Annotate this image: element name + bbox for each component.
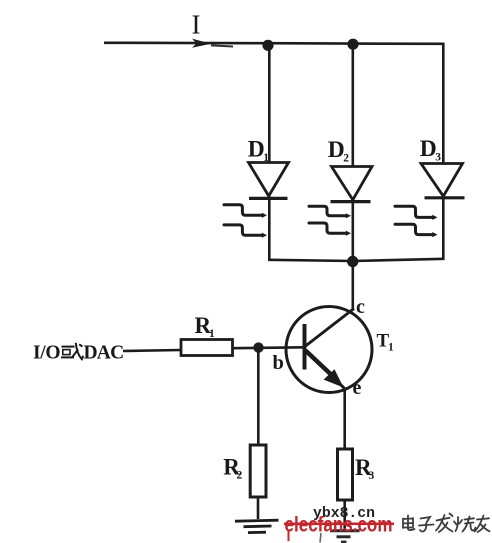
resistor R3 — [338, 449, 353, 500]
diode D2 — [331, 167, 373, 202]
ground under R2 — [235, 520, 279, 532]
light arrow D2 upper — [309, 206, 351, 218]
wire emitter vertical — [343, 388, 346, 450]
svg-text:DAC: DAC — [84, 343, 124, 364]
wire D1 cathode drop — [268, 196, 271, 261]
diode D1 — [249, 163, 289, 199]
watermark Chinese dianzifashaoyou — [403, 514, 490, 533]
wire D3 cathode drop — [442, 196, 445, 260]
light arrow D1 lower — [224, 225, 267, 238]
label T1 — [377, 331, 395, 354]
label R1 — [195, 313, 216, 340]
wire D2 cathode drop — [351, 199, 354, 262]
light arrow D3 upper — [395, 206, 438, 220]
svg-text:2: 2 — [237, 469, 243, 481]
wire R2 to ground — [257, 497, 260, 519]
transistor T1 — [286, 307, 372, 393]
wire D3 branch from rail corner — [442, 43, 445, 164]
glyph Chinese huo (or) — [61, 343, 83, 359]
wire R3 to ground — [343, 500, 346, 529]
svg-text:b: b — [273, 352, 284, 374]
label D1 — [248, 137, 269, 164]
wire D1 anode drop — [268, 43, 271, 163]
label R3 — [355, 455, 375, 482]
ground under R3 — [330, 531, 360, 542]
current arrow on top rail — [192, 39, 211, 48]
watermark stray descender marks — [289, 531, 322, 543]
node junction bottom rail — [347, 256, 358, 267]
node junction top-left — [262, 40, 273, 51]
svg-text:I: I — [192, 10, 201, 40]
svg-text:3: 3 — [435, 151, 441, 163]
light arrow D2 lower — [309, 223, 351, 236]
wire collector vertical — [351, 261, 354, 310]
svg-text:D: D — [248, 137, 265, 163]
svg-text:3: 3 — [369, 470, 375, 482]
label R2 — [223, 455, 242, 482]
wire base lead — [123, 347, 304, 351]
resistor R2 — [250, 445, 266, 497]
svg-text:e: e — [353, 377, 362, 399]
node junction base — [253, 342, 263, 352]
svg-text:1: 1 — [209, 328, 215, 340]
label D3 — [420, 136, 442, 163]
node junction top-mid — [347, 39, 358, 50]
svg-text:D: D — [420, 136, 437, 162]
wire D2 anode drop — [351, 43, 354, 167]
svg-text:D: D — [328, 137, 345, 163]
wire base node to R2 — [257, 348, 260, 446]
diode D3 — [421, 164, 465, 198]
light arrow D3 lower — [395, 224, 438, 237]
svg-text:c: c — [356, 296, 365, 318]
svg-text:I/O: I/O — [33, 343, 60, 364]
light arrow D1 upper — [224, 205, 267, 218]
resistor R1 — [181, 340, 233, 356]
svg-text:2: 2 — [343, 152, 349, 164]
svg-text:1: 1 — [388, 342, 394, 354]
wire bottom collector rail — [268, 259, 445, 261]
label D2 — [328, 137, 350, 164]
wire top supply rail — [104, 43, 444, 44]
watermark elecfans.com — [284, 514, 394, 537]
